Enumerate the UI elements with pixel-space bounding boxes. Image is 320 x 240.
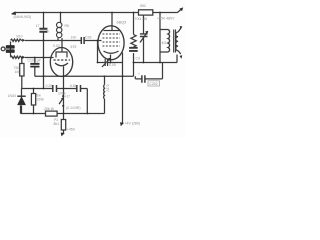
svg-text:10n: 10n bbox=[71, 36, 77, 40]
svg-text:(0.1/10R): (0.1/10R) bbox=[66, 106, 81, 110]
svg-text:0.02: 0.02 bbox=[53, 44, 60, 48]
svg-text:R5: R5 bbox=[65, 24, 70, 28]
svg-text:+4V (280): +4V (280) bbox=[125, 122, 140, 126]
svg-text:(6AV6-903): (6AV6-903) bbox=[14, 15, 32, 19]
svg-text:1M: 1M bbox=[15, 70, 20, 74]
svg-text:552: 552 bbox=[140, 4, 146, 8]
svg-text:20k W: 20k W bbox=[44, 107, 55, 111]
svg-text:4Ω: 4Ω bbox=[162, 41, 167, 45]
svg-text:1N34: 1N34 bbox=[8, 94, 16, 98]
svg-text:0.28: 0.28 bbox=[46, 84, 53, 88]
svg-text:+: + bbox=[138, 72, 140, 76]
svg-text:17: 17 bbox=[36, 24, 40, 28]
svg-text:6.8k: 6.8k bbox=[70, 84, 77, 88]
svg-text:+45V 480V: +45V 480V bbox=[157, 17, 175, 21]
svg-text:675: 675 bbox=[71, 45, 77, 49]
svg-text:100k: 100k bbox=[36, 98, 44, 102]
svg-text:70Ω 1W: 70Ω 1W bbox=[135, 17, 148, 21]
svg-text:+450: +450 bbox=[67, 128, 75, 132]
svg-text:8k1: 8k1 bbox=[54, 122, 60, 126]
svg-text:C10 1μF: C10 1μF bbox=[28, 59, 42, 63]
svg-text:+17: +17 bbox=[65, 95, 71, 99]
svg-text:C28: C28 bbox=[85, 36, 91, 40]
svg-text:0.05: 0.05 bbox=[109, 63, 116, 67]
svg-text:R10: R10 bbox=[17, 35, 23, 39]
svg-text:C202: C202 bbox=[149, 82, 157, 86]
svg-text:5: 5 bbox=[47, 30, 49, 34]
svg-text:6.3V: 6.3V bbox=[106, 85, 110, 93]
svg-text:C9: C9 bbox=[136, 57, 141, 61]
svg-text:6BQ5: 6BQ5 bbox=[117, 21, 127, 25]
